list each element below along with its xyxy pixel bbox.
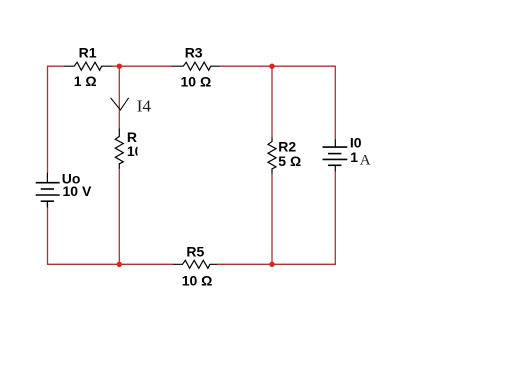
wire top rail segment 2 xyxy=(111,65,172,67)
wire R2 branch upper xyxy=(271,66,273,137)
svg-text:10 V: 10 V xyxy=(63,183,92,199)
svg-text:10: 10 xyxy=(127,143,143,159)
junction node top-right xyxy=(269,63,274,68)
resistor R2 xyxy=(268,138,276,174)
svg-text:5 Ω: 5 Ω xyxy=(278,153,301,169)
resistor R5 xyxy=(173,260,217,268)
svg-text:R5: R5 xyxy=(186,243,204,259)
wire right branch lower xyxy=(334,171,336,264)
svg-text:R: R xyxy=(127,129,137,145)
svg-text:10 Ω: 10 Ω xyxy=(182,272,213,288)
wire middle branch upper xyxy=(118,66,120,129)
junction node top-left xyxy=(117,63,122,68)
svg-text:1 Ω: 1 Ω xyxy=(74,73,97,89)
resistor R (middle branch) xyxy=(115,129,123,169)
svg-text:1: 1 xyxy=(350,149,358,165)
wire right branch upper xyxy=(334,66,336,140)
svg-text:R3: R3 xyxy=(185,45,203,61)
wire R2 branch lower xyxy=(271,174,273,265)
wire left branch upper xyxy=(47,66,49,173)
svg-text:10 Ω: 10 Ω xyxy=(181,73,212,89)
wire top rail segment 1 xyxy=(47,65,65,67)
current source I0 (battery symbol) xyxy=(323,139,348,171)
battery source Uo xyxy=(36,173,60,208)
resistor R3 xyxy=(172,62,220,70)
svg-text:I4: I4 xyxy=(137,97,152,116)
wire bottom rail segment 1 xyxy=(47,263,173,265)
wire top rail segment 3 xyxy=(220,65,336,67)
wire middle branch lower xyxy=(118,168,120,264)
junction node bottom-left xyxy=(117,262,122,267)
resistor R value label (clipped "10") xyxy=(127,143,143,159)
wire left branch lower xyxy=(47,201,49,264)
junction node bottom-right xyxy=(269,262,274,267)
svg-text:A: A xyxy=(360,153,371,169)
svg-text:R1: R1 xyxy=(79,45,97,61)
current arrow I4 xyxy=(111,98,129,110)
wire bottom rail segment 2 xyxy=(217,263,336,265)
resistor R1 xyxy=(65,62,112,70)
